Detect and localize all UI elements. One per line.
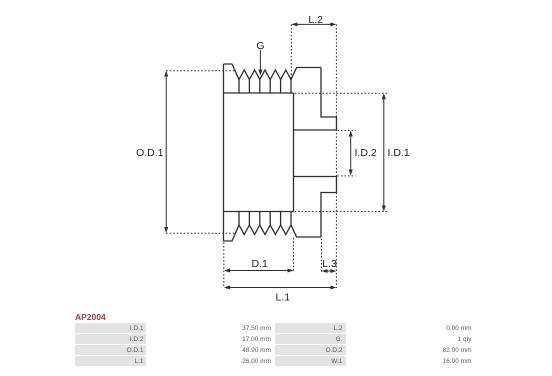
bottom groove verticals [239, 212, 291, 226]
L.3 dimension line [325, 270, 334, 272]
L.3 arrows [322, 269, 328, 273]
I.D.1 dimension line [383, 96, 385, 208]
hub right profile top [294, 68, 337, 131]
svg-text:L.1: L.1 [275, 292, 290, 304]
svg-text:D.1: D.1 [252, 258, 269, 270]
O.D.1 arrows [164, 71, 168, 77]
pulley body rectangle [224, 92, 294, 94]
G arrow [259, 50, 261, 73]
spec table row 2 [75, 334, 146, 344]
extension dotted lines [290, 24, 292, 78]
L.2 arrows [291, 22, 297, 26]
I.D.2 dimension line [350, 134, 352, 173]
part number [75, 312, 106, 322]
svg-text:I.D.1: I.D.1 [388, 147, 410, 159]
svg-text:L.3: L.3 [322, 258, 337, 270]
D.1 arrows [224, 269, 230, 273]
L.1 arrows [224, 286, 230, 290]
pulley outer rim + top ribs [224, 64, 322, 80]
svg-text:I.D.2: I.D.2 [355, 147, 377, 159]
arrowheads: G down [258, 70, 262, 76]
svg-text:O.D.1: O.D.1 [136, 147, 164, 159]
svg-text:G: G [256, 40, 264, 52]
spec table row 1 [75, 323, 146, 333]
svg-text:L.2: L.2 [308, 14, 323, 26]
pulley left edge [224, 64, 322, 241]
D.1 dimension line [227, 270, 291, 272]
spec table row 3 [75, 345, 146, 355]
L.1 dimension line [227, 287, 333, 289]
top groove verticals [239, 80, 291, 94]
hub right profile bottom [294, 177, 337, 238]
I.D.2 arrows [349, 131, 353, 137]
spec table row 4 [75, 356, 146, 366]
O.D.1 dimension line [165, 74, 167, 231]
I.D.1 arrows [382, 93, 386, 99]
L.2 dimension line [294, 23, 333, 25]
